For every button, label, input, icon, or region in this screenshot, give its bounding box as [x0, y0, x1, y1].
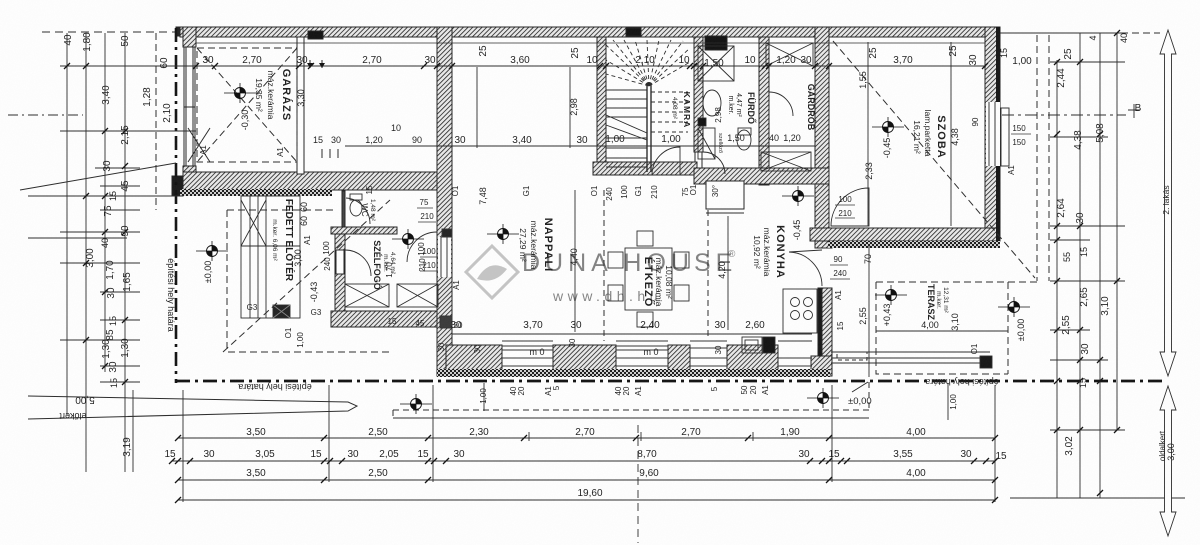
- konyha east wall upper: [815, 241, 832, 248]
- middle wall under bath/gardrob: [694, 168, 829, 184]
- boundary horizontal line: [176, 380, 1163, 383]
- garage door swing X: [188, 128, 210, 162]
- door gap left wall: [438, 237, 451, 277]
- terasz dim vertical: [868, 246, 870, 377]
- stair treads upper left: [606, 90, 647, 117]
- right bottom base line: [1010, 497, 1185, 499]
- left garage wall bottom block: [183, 166, 196, 191]
- window symbols in bottom wall: [438, 27, 1009, 366]
- stair break diagonals: [606, 115, 647, 140]
- B marker tick: [1128, 104, 1140, 118]
- szoba dashed diagonal: [833, 41, 1035, 278]
- top exterior wall: [180, 27, 1000, 37]
- dim line y146: [345, 145, 815, 147]
- dashed vertical left column: [155, 33, 157, 210]
- top wall inner face line: [196, 42, 985, 44]
- ticks bottom row3: [175, 477, 998, 483]
- szelfogo entry arc: [345, 250, 371, 276]
- kitchen sink unit: [742, 337, 762, 353]
- door arc terrace: [789, 250, 822, 286]
- bottom extension verticals: [183, 383, 995, 502]
- szoba inner vertical dims: [868, 42, 951, 226]
- vent block on top wall: [626, 28, 641, 36]
- door gap stairs/bath: [695, 152, 702, 174]
- wall room / stairs: [597, 37, 606, 175]
- door arc stairs hall: [652, 147, 680, 175]
- right column vertical lines: [1057, 33, 1117, 498]
- leader line to level text: [852, 382, 868, 392]
- right column connectors: [1000, 33, 1125, 430]
- left column vertical lines: [67, 33, 133, 472]
- window szoba right wall: [986, 102, 1000, 166]
- ticks left columns: [64, 63, 128, 385]
- garage bottom wall: [183, 172, 445, 190]
- gardrob bottom cabinet X: [761, 152, 811, 171]
- scan noise overlay: [0, 0, 1, 1]
- kitchen cabinet box: [706, 181, 744, 209]
- terrace edge lines: [831, 352, 990, 363]
- walkway dashed band top line: [393, 382, 869, 418]
- nappali section dashed line: [603, 190, 605, 341]
- konyha east wall black edge: [818, 288, 822, 371]
- szelfogo bottom wall: [331, 311, 437, 327]
- bottom wall pier 3: [668, 345, 690, 371]
- oldalkert hollow arrow: [1160, 386, 1176, 536]
- room3 dim verticals: [477, 67, 570, 148]
- dashed horizontal top left: [42, 31, 178, 33]
- middle wall under stairs: [593, 162, 697, 175]
- bottom wall pier 4: [727, 345, 778, 371]
- dashed horizontal top right: [1000, 32, 1160, 34]
- bottom row 3 line: [178, 479, 995, 481]
- washer black box: [698, 118, 706, 126]
- window W1 bottom: [502, 341, 553, 366]
- szelfogo door gap left: [336, 250, 344, 274]
- top-left corner nub: [176, 27, 186, 36]
- szelfogo cabinet X 2: [397, 284, 438, 307]
- nappali dim vertical 4,40: [574, 190, 576, 332]
- vent block room2: [308, 31, 323, 39]
- ticks right columns: [1054, 30, 1120, 496]
- porch deck outline: [241, 196, 300, 318]
- porch dashed box: [227, 210, 392, 352]
- washing machine: [698, 128, 715, 159]
- triple ticks room2 lower: [322, 149, 338, 158]
- szoba bottom wall: [810, 228, 1000, 241]
- walkway band solid bottom line: [393, 417, 869, 419]
- section line B-B: [1002, 114, 1126, 116]
- svg-text:A1: A1: [199, 145, 208, 155]
- kitchen dashed divider: [707, 210, 709, 340]
- bottom wall SE corner pier: [811, 356, 832, 376]
- toilet: [737, 130, 751, 150]
- garage dashed box: [197, 48, 297, 162]
- wall gardrob / szoba: [815, 27, 829, 241]
- boundary vertical line: [175, 28, 178, 383]
- road diagonal top-left: [20, 163, 176, 190]
- top interior dim line: [196, 65, 986, 67]
- stair center spine: [647, 84, 651, 172]
- ticks bottom row4: [175, 497, 998, 503]
- kitchen stove circles: [791, 298, 800, 307]
- szelfogo left wall: [335, 227, 345, 312]
- down arrows room2: [310, 60, 322, 68]
- terrace corner post: [980, 356, 992, 368]
- wc/szelfogo divider wall: [331, 227, 397, 234]
- bottom wall pier 1: [446, 345, 502, 371]
- insulation strip under bottom wall: [437, 369, 830, 377]
- szoba right exterior wall: [985, 27, 1000, 241]
- ticks bottom row1: [175, 435, 998, 441]
- dining chairs: [608, 252, 623, 268]
- bottom row 2 line: [172, 460, 995, 462]
- chimney block on top wall: [705, 36, 727, 50]
- gardrob top cabinet X: [766, 43, 813, 66]
- porch dashed diagonal: [223, 200, 390, 352]
- stair treads right dashed: [651, 92, 688, 132]
- door arc bath: [703, 152, 725, 174]
- wc toilet: [350, 200, 362, 216]
- second apartment hollow arrow: [1160, 30, 1176, 376]
- tick marks on chains: [64, 30, 1120, 503]
- szoba wall black outer edge: [996, 27, 1000, 102]
- window W3 bottom: [690, 341, 727, 366]
- shower tray: [698, 46, 734, 81]
- left column connectors: [28, 66, 196, 382]
- section line B dashed: [637, 425, 639, 543]
- main left wall of living room: [437, 27, 452, 376]
- garage door A1 in left wall: [184, 47, 195, 166]
- bottom row 4 line: [178, 499, 995, 501]
- kitchen counter: [783, 289, 817, 333]
- terasz dim horizontal: [876, 330, 1008, 332]
- bath sink: [703, 90, 721, 116]
- terasz step rect dashed: [837, 352, 867, 360]
- ticks top dim line: [193, 63, 988, 69]
- door bottom right: [778, 341, 812, 366]
- wc left wall line: [342, 191, 345, 227]
- konyha east wall: [818, 288, 832, 371]
- kitchen black appliance: [763, 337, 775, 353]
- szelfogo cabinet X 1: [345, 284, 389, 307]
- road line 1: [28, 396, 357, 419]
- watermark DUNA HOUSE logo: [466, 246, 737, 304]
- wall stairs / bath: [694, 37, 703, 152]
- porch cross mark: [241, 200, 266, 246]
- kitchen cabinet bottom line: [706, 212, 744, 214]
- door size labels: [417, 124, 1031, 279]
- dashed vertical 2: [1048, 35, 1050, 281]
- insulation strip under garage wall: [180, 189, 332, 196]
- bottom row 1 line: [178, 437, 995, 439]
- bottom wall pier 2: [553, 345, 616, 371]
- window sill box szoba: [1001, 108, 1009, 166]
- door arc szoba: [831, 188, 869, 226]
- wc door arc: [346, 198, 370, 224]
- left garage wall top block: [183, 27, 196, 47]
- dining table: [625, 248, 672, 310]
- door arc szelfogo entry: [407, 232, 437, 262]
- stair fan lines dashed: [606, 40, 690, 86]
- dashed vertical right of szoba: [1036, 35, 1038, 281]
- wall garage / room2: [297, 37, 304, 174]
- nappali bottom dim line: [452, 333, 812, 335]
- insulation strip under szoba wall: [828, 241, 1000, 248]
- dash-dot segment top left: [8, 114, 83, 116]
- porch mat: [273, 305, 290, 318]
- wall bath / gardrob: [759, 37, 769, 185]
- window W2 bottom: [616, 341, 668, 366]
- terasz dashed box: [876, 282, 1037, 374]
- konyha vertical dim: [727, 216, 729, 330]
- garage dashed X: [197, 48, 297, 162]
- door arc gardrob: [769, 92, 793, 116]
- stair treads lower left: [606, 138, 647, 167]
- ticks bottom row2: [169, 458, 998, 464]
